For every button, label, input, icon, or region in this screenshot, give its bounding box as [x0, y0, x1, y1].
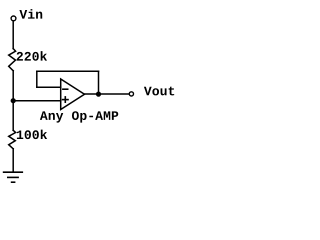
wire Vin to R1 — [12, 21, 14, 49]
wire feedback top — [37, 70, 99, 72]
terminal Vout — [129, 92, 133, 96]
wire node A to R2 — [12, 101, 14, 131]
label Vout — [144, 87, 174, 96]
node output junction — [96, 92, 101, 97]
wire R1 to node A — [12, 71, 14, 101]
label Vin — [19, 9, 42, 18]
label Any Op-AMP — [40, 111, 118, 122]
wire output — [85, 93, 129, 95]
wire feedback right vertical to output node — [98, 71, 100, 94]
ground — [4, 172, 23, 182]
op-amp U1 plus sign — [63, 97, 68, 102]
resistor R1 220k — [9, 49, 16, 71]
label 100k — [17, 130, 47, 140]
node A junction — [11, 98, 16, 103]
terminal Vin — [11, 16, 16, 21]
label 220k — [17, 51, 47, 61]
op-amp U1 minus sign — [63, 88, 68, 90]
wire feedback left vertical — [36, 71, 38, 87]
wire node A to op-amp noninverting input — [13, 100, 61, 102]
op-amp U1 — [61, 79, 85, 110]
wire inverting input — [37, 86, 61, 88]
wire R2 to ground — [12, 149, 14, 172]
resistor R2 100k — [9, 130, 16, 149]
